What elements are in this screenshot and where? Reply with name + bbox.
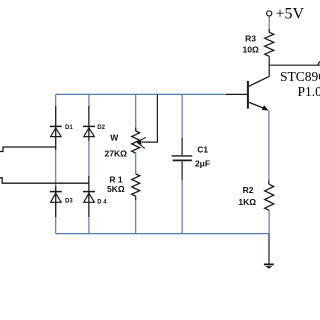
transistor Q1 emitter arrow — [262, 105, 269, 111]
svg-text:R3: R3 — [245, 33, 256, 43]
wire bridge right column — [88, 94, 90, 233]
wire C1 bottom (blue) — [181, 180, 183, 234]
resistor R3 zigzag — [265, 32, 274, 56]
wire C1 bottom lead (black) — [181, 161, 183, 180]
diode D2 — [83, 126, 95, 136]
svg-text:R 1: R 1 — [109, 174, 123, 184]
resistor R1 zigzag — [132, 174, 140, 196]
wire ground stem — [268, 234, 270, 264]
wire R3 to collector node (black) — [268, 56, 270, 76]
capacitor C1 — [172, 156, 193, 161]
wire +5V to R3 (blue) — [268, 16, 270, 32]
wire potentiometer column upper (blue) — [135, 94, 137, 131]
potentiometer W zigzag — [132, 131, 140, 153]
transistor Q1 emitter — [249, 102, 267, 109]
transistor Q1 collector — [249, 76, 269, 86]
wire R3 top lead (black) — [268, 29, 270, 32]
svg-text:W: W — [110, 133, 119, 143]
wire R1 bottom (blue) — [135, 200, 137, 234]
svg-text:P1.0: P1.0 — [298, 84, 320, 99]
wire R1 bottom lead (black) — [135, 196, 137, 200]
wire R2 to bottom rail (blue) — [268, 210, 270, 233]
resistor R2 zigzag — [265, 184, 274, 210]
svg-text:1KΩ: 1KΩ — [238, 197, 256, 207]
svg-text:D1: D1 — [65, 125, 73, 131]
svg-text:D2: D2 — [97, 125, 105, 131]
svg-text:R2: R2 — [243, 185, 254, 195]
diode D3 — [50, 192, 62, 203]
wire W top lead (black) — [135, 128, 137, 132]
wire top rail (blue) — [56, 93, 226, 95]
diode D1 — [50, 126, 62, 136]
terminal +5V circle — [267, 11, 272, 16]
svg-text:27KΩ: 27KΩ — [104, 149, 127, 159]
wire between W and R1 (blue) — [135, 153, 137, 174]
svg-text:5KΩ: 5KΩ — [107, 184, 125, 194]
svg-text:D 4: D 4 — [97, 200, 107, 206]
transistor Q1 base bar — [247, 81, 249, 109]
wire input A (upper left stub) — [0, 147, 56, 152]
svg-text:+5V: +5V — [276, 6, 305, 23]
wire bottom rail (blue) — [56, 233, 269, 235]
wiper arrow barbs — [137, 137, 146, 148]
wire wiper (black, from top rail) — [142, 94, 157, 142]
ground — [264, 264, 274, 268]
wire C1 top lead (black) — [181, 138, 183, 155]
svg-text:STC89C: STC89C — [280, 69, 320, 84]
wiper arrow tip — [136, 140, 141, 145]
wire bridge left column — [55, 94, 57, 233]
svg-text:2μF: 2μF — [195, 159, 210, 169]
wire C1 top (blue) — [181, 94, 183, 138]
wire base segment (black) — [226, 93, 248, 95]
edge tick at right end — [318, 61, 320, 65]
svg-text:D3: D3 — [65, 199, 73, 205]
svg-text:C1: C1 — [197, 145, 208, 155]
wire input B (lower left stub) — [0, 178, 89, 183]
svg-text:10Ω: 10Ω — [243, 44, 259, 54]
diode D4 — [83, 192, 95, 203]
wire R2 top lead (black) — [268, 181, 270, 185]
wire emitter to R2 (blue) — [268, 110, 270, 184]
wire collector node to right edge — [269, 64, 320, 66]
